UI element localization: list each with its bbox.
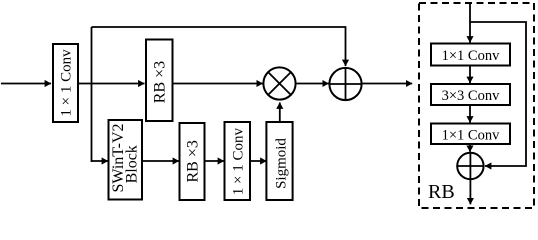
wire RB conv1 to conv2 <box>469 66 471 84</box>
adder node (RB) <box>457 153 483 179</box>
wire RB conv2 to conv3 <box>469 105 471 123</box>
dashed RB detail box <box>419 3 534 208</box>
wire SWinT to RB x3 bottom <box>142 160 179 162</box>
wire RB output <box>469 179 471 204</box>
wire output arrow <box>361 83 412 85</box>
adder node <box>329 68 361 100</box>
svg-text:RB ×3: RB ×3 <box>151 61 168 103</box>
block 3x3 Conv (RB) <box>431 84 510 105</box>
svg-text:RB: RB <box>428 181 455 203</box>
wire sigmoid to multiplier <box>279 103 281 123</box>
svg-text:1×1 Conv: 1×1 Conv <box>442 48 500 64</box>
wire RB x3 to multiplier <box>173 83 263 85</box>
block Sigmoid <box>266 122 292 200</box>
svg-text:1×1 Conv: 1×1 Conv <box>442 128 500 144</box>
block RB x3 (bottom) <box>180 123 205 200</box>
wire conv to RB x3 <box>78 83 145 85</box>
wire 1x1 conv to sigmoid <box>250 160 267 162</box>
wire top skip rail <box>92 27 346 66</box>
block 1x1 Conv (RB top) <box>431 44 510 66</box>
block 1x1 Conv (bottom) <box>225 122 251 200</box>
svg-text:Sigmoid: Sigmoid <box>274 138 290 189</box>
multiplier node <box>263 67 295 99</box>
wire multiplier to adder <box>296 83 329 85</box>
svg-text:Block: Block <box>124 145 141 183</box>
wire RB skip connection <box>470 22 526 166</box>
wire RB input <box>469 3 471 43</box>
svg-text:RB ×3: RB ×3 <box>185 140 202 182</box>
svg-text:1 × 1 Conv: 1 × 1 Conv <box>231 127 247 195</box>
block RB x3 (middle) <box>146 40 173 122</box>
wire input arrow <box>1 83 51 85</box>
block 1x1 Conv (left) <box>53 44 78 122</box>
block 1x1 Conv (RB bottom) <box>431 124 510 145</box>
wire branch vertical <box>91 27 93 162</box>
svg-text:3×3 Conv: 3×3 Conv <box>442 88 500 104</box>
wire RB conv3 to adder <box>469 144 471 152</box>
wire RB x3 to 1x1 conv bottom <box>205 160 225 162</box>
block SWinT-V2 Block <box>109 120 143 200</box>
wire branch to SWinT <box>92 160 109 162</box>
svg-text:1 × 1 Conv: 1 × 1 Conv <box>59 49 75 117</box>
